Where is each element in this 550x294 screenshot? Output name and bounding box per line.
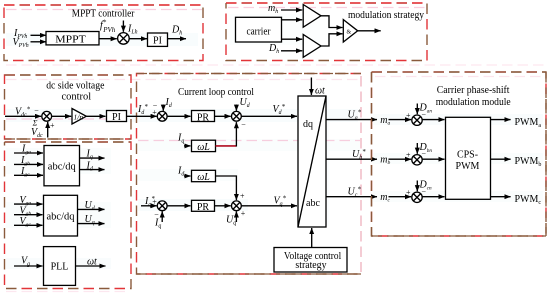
- carrier block: [236, 17, 282, 42]
- svg-text:ωL: ωL: [197, 142, 210, 153]
- svg-text:Iq: Iq: [177, 133, 184, 145]
- svg-text:control: control: [62, 92, 92, 103]
- wire C5c to CPS-PWM: [422, 196, 444, 198]
- svg-text:PWMb: PWMb: [515, 156, 542, 168]
- svg-text:PR: PR: [197, 202, 210, 213]
- wire D_cn down into C5c: [416, 181, 418, 192]
- comparator 2 triangle: [303, 35, 321, 58]
- svg-text:+: +: [406, 111, 411, 120]
- svg-text:abc: abc: [306, 198, 320, 209]
- svg-text:Vdc: Vdc: [31, 127, 43, 139]
- output wire D_h: [168, 38, 187, 40]
- wire carrier to comparator 1: [282, 19, 303, 21]
- svg-text:&: &: [347, 29, 352, 35]
- wire VCS up into abc block: [311, 228, 313, 248]
- wire C5a to CPS-PWM: [422, 119, 444, 121]
- summer C5b: [412, 155, 422, 165]
- summer C1: [157, 111, 167, 121]
- svg-text:PI: PI: [153, 36, 162, 47]
- svg-text:−: −: [422, 110, 427, 119]
- wire V_dc* into summer: [5, 115, 41, 117]
- dq/abc transform block: [298, 96, 326, 227]
- wire D_an down into C5a: [416, 104, 418, 115]
- svg-text:modulation module: modulation module: [436, 97, 512, 108]
- PI block (MPPT chain): [148, 33, 168, 46]
- dc side voltage control dashed box: [5, 75, 132, 139]
- output PWM_a: [491, 119, 511, 121]
- wire I_d down into C1: [162, 105, 164, 111]
- wire U_a* out of dq block: [326, 119, 377, 121]
- svg-text:PWM: PWM: [456, 161, 480, 172]
- omega-L block 1: [192, 140, 216, 151]
- svg-text:CPS-: CPS-: [457, 150, 478, 161]
- svg-text:Dh: Dh: [171, 25, 182, 37]
- Carrier phase-shift dashed box: [372, 72, 547, 236]
- wire C1 to PR1: [167, 115, 190, 117]
- svg-text:1/n: 1/n: [74, 112, 84, 121]
- svg-text:PWMc: PWMc: [515, 194, 542, 206]
- comparator 1 triangle: [303, 5, 321, 28]
- svg-text:ωL: ωL: [197, 172, 210, 183]
- wire PR1 to C2: [215, 115, 231, 117]
- svg-text:f*PVh: f*PVh: [100, 20, 116, 35]
- PI block (dc control): [107, 111, 127, 122]
- summer C5c: [412, 192, 422, 202]
- svg-text:strategy: strategy: [295, 260, 326, 271]
- Current loop control dashed box: [137, 74, 362, 275]
- wire V_ga: [14, 203, 43, 205]
- svg-text:−: −: [241, 121, 246, 130]
- svg-text:+: +: [406, 151, 411, 160]
- wire I_q* into C3: [141, 205, 157, 207]
- wire D_h into comparator 2: [281, 50, 302, 52]
- svg-text:Ud: Ud: [240, 97, 250, 109]
- svg-text:Carrier phase-shift: Carrier phase-shift: [437, 85, 510, 96]
- svg-text:−: −: [422, 187, 427, 196]
- wire U_d down into C2: [235, 105, 237, 111]
- wire V_dc up into summer: [47, 122, 49, 138]
- MPPT block: [46, 32, 99, 45]
- svg-text:−: −: [153, 102, 158, 111]
- wire into MPPT (I_PVh): [31, 34, 47, 36]
- PR block 1: [192, 111, 215, 122]
- summer circle (dc control): [42, 111, 52, 121]
- wire PI output to summer C1 (I_d* line): [127, 115, 157, 117]
- wire multiplier to PI: [129, 38, 147, 40]
- Voltage control strategy block: [274, 248, 347, 273]
- svg-text:MPPT controller: MPPT controller: [72, 9, 135, 20]
- wire into MPPT (V_PVh): [31, 41, 47, 43]
- wire C4 to abc block, V_q*: [241, 205, 297, 207]
- output PWM_b: [491, 158, 511, 160]
- svg-text:abc/dq: abc/dq: [48, 161, 76, 172]
- svg-text:Id: Id: [165, 97, 172, 109]
- summer C3: [157, 201, 167, 211]
- AND output wire: [358, 30, 381, 32]
- wire U_b* out of dq block: [326, 158, 377, 160]
- wire m_h into comparator 1: [281, 9, 302, 11]
- svg-text:PWMa: PWMa: [515, 117, 542, 129]
- wire D_bn down into C5b: [416, 143, 418, 154]
- svg-text:Iq: Iq: [154, 218, 161, 230]
- wire m_c into summer C5c: [389, 196, 412, 198]
- wire MPPT to multiplier: [99, 38, 117, 40]
- multiplier circle (MPPT chain): [118, 33, 130, 45]
- wire comparator 2 to AND gate: [321, 34, 343, 46]
- wire PR2 to C4: [215, 205, 231, 207]
- wire i_gc: [14, 174, 43, 176]
- wire V_g into PLL: [14, 265, 43, 267]
- svg-text:PLL: PLL: [51, 262, 69, 273]
- svg-text:ILh: ILh: [127, 24, 138, 36]
- svg-text:+: +: [240, 192, 245, 201]
- svg-text:dq: dq: [303, 119, 313, 130]
- summer C2: [232, 111, 242, 121]
- wire U_c* out of dq block: [326, 196, 377, 198]
- wire I_q into wL1: [184, 145, 191, 147]
- modulation strategy dashed box: [226, 3, 427, 61]
- abc/dq block 2: [44, 195, 78, 236]
- wire omega t into dq block: [310, 78, 312, 96]
- wire V_gb: [14, 214, 43, 216]
- wire i_ga: [14, 152, 43, 154]
- wire m_b into summer C5b: [389, 158, 412, 160]
- svg-text:Uq: Uq: [226, 215, 236, 227]
- wire U_q up into C4: [235, 211, 237, 222]
- svg-text:carrier: carrier: [247, 26, 272, 37]
- diagonal of dq/abc block: [298, 96, 326, 227]
- wire I_d into wL2: [184, 175, 191, 177]
- CPS-PWM block: [446, 117, 491, 199]
- wire I_q up into C3: [161, 211, 163, 222]
- svg-text:Id: Id: [177, 166, 184, 178]
- wire wL1 up into C2: [216, 145, 237, 147]
- svg-text:−: −: [422, 149, 427, 158]
- wire C3 to PR2: [167, 205, 190, 207]
- svg-text:dc side voltage: dc side voltage: [46, 81, 105, 92]
- wire V_gc: [14, 224, 43, 226]
- gain triangle 1/n: [72, 109, 86, 125]
- wire wL2 down into C4: [216, 176, 237, 200]
- svg-text:PI: PI: [112, 112, 121, 123]
- wire C2 to dq block, V_d*: [241, 115, 297, 117]
- wire C5b to CPS-PWM: [422, 158, 444, 160]
- AND gate triangle: [343, 20, 357, 42]
- PR block 2: [192, 200, 215, 211]
- svg-text:ωt: ωt: [315, 86, 325, 97]
- MPPT controller dashed box: [4, 5, 203, 61]
- wire comparator 1 to AND gate: [321, 16, 343, 28]
- output PWM_c: [491, 196, 511, 198]
- summer C5a: [412, 115, 422, 125]
- svg-text:−: −: [34, 107, 39, 116]
- abc/dq block 1: [44, 146, 80, 186]
- svg-text:MPPT: MPPT: [55, 35, 86, 46]
- wire gain to PI: [86, 115, 105, 117]
- svg-text:PR: PR: [197, 112, 210, 123]
- svg-text:abc/dq: abc/dq: [47, 211, 75, 222]
- wire carrier to comparator 2: [282, 38, 303, 40]
- wire summer to gain: [52, 115, 72, 117]
- svg-text:+: +: [152, 198, 157, 207]
- wire i_gb: [14, 163, 43, 165]
- wire m_a into summer C5a: [389, 119, 412, 121]
- wire I_Lh down into multiplier: [122, 21, 124, 32]
- summer C4: [232, 201, 242, 211]
- svg-text:+: +: [406, 188, 411, 197]
- svg-text:+: +: [241, 209, 246, 218]
- svg-text:modulation strategy: modulation strategy: [348, 10, 424, 21]
- left lower dashed box: [5, 142, 132, 289]
- svg-text:mh: mh: [268, 3, 278, 15]
- omega-L block 2: [192, 170, 216, 181]
- PLL block: [44, 247, 76, 286]
- svg-text:+: +: [50, 121, 55, 130]
